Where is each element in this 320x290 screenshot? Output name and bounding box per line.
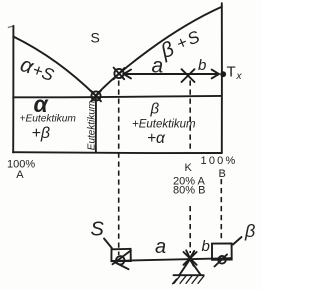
svg-text:β: β [150,101,160,118]
svg-text:+Eutektikum: +Eutektikum [132,119,196,131]
svg-text:Eutektikum: Eutektikum [87,101,98,150]
svg-text:b: b [202,238,210,255]
svg-text:A: A [16,169,24,181]
svg-text:+α: +α [147,130,166,147]
svg-text:T: T [227,64,236,81]
svg-text:a: a [155,236,166,258]
svg-text:B: B [219,168,226,180]
svg-text:x: x [236,71,243,82]
svg-text:80% B: 80% B [173,185,205,197]
svg-text:a: a [152,55,164,78]
svg-text:S: S [91,30,100,46]
svg-text:b: b [198,57,206,74]
svg-text:+Eutektikum: +Eutektikum [20,114,77,125]
svg-text:α+S: α+S [17,53,57,86]
svg-text:100%: 100% [201,155,238,167]
svg-text:+β: +β [32,125,50,142]
svg-text:β: β [244,221,255,241]
svg-text:K: K [185,162,193,174]
svg-text:S: S [91,219,105,241]
